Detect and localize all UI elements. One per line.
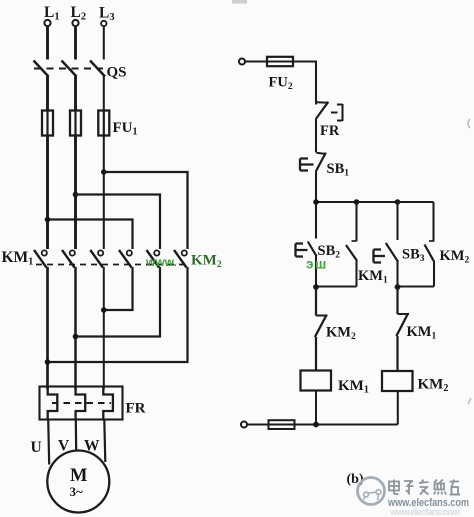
coil KM1 (301, 371, 332, 391)
FR heater element 2 (76, 387, 86, 420)
fuse FU2 lower (269, 420, 295, 429)
svg-text:V: V (58, 438, 70, 455)
svg-text:U: U (31, 439, 42, 456)
FR heater element 1 (48, 387, 58, 420)
watermark CJK text 电子发烧友 (approximated) (389, 480, 460, 495)
svg-text:www.: www. (145, 255, 177, 269)
wire FR to motor W (104, 420, 105, 463)
wire QS to FU1 phase3 (103, 76, 105, 111)
node junction phase3 (101, 307, 107, 313)
svg-text:W: W (84, 438, 100, 455)
wire pair2 bottom (398, 285, 435, 287)
wire KM1 contact1 down to FR (46, 267, 49, 390)
node junction L3 feeder (101, 169, 107, 175)
wire SB2 to pair node (315, 256, 317, 287)
contactor KM1 main contact 3 (90, 250, 103, 268)
thermal relay FR box (40, 387, 123, 420)
wire KM2 contact4 to phase3 (104, 267, 133, 310)
motor M 3-phase (47, 451, 109, 513)
wire bottom return (295, 423, 398, 425)
node junction phase1 (45, 359, 51, 365)
FR trip mechanism mark (331, 104, 343, 121)
KM main contacts dashed gang link (36, 264, 189, 266)
svg-text:(b): (b) (347, 472, 364, 487)
pushbutton SB3 (NO start rev) (374, 202, 399, 263)
wire feeder L1 to KM2 contact 4 (48, 220, 133, 250)
wire QS to FU1 phase1 (46, 76, 49, 111)
wire L2 to QS (74, 26, 77, 59)
wire coil KM2 to bottom (397, 391, 399, 425)
svg-text:FR: FR (126, 401, 146, 417)
FR NC contact (control) (316, 102, 329, 119)
wire QS to FU1 phase2 (74, 76, 77, 111)
switch QS pole 1 (34, 61, 49, 77)
fuse FU1 element 3 (98, 111, 109, 136)
contactor KM1 auxiliary NO contact (346, 202, 357, 287)
FR heaters dashed link (52, 402, 111, 404)
contactor KM1 main contact 1 (34, 250, 47, 268)
node bus-SB3 (395, 199, 401, 205)
wire L1 to QS (46, 26, 49, 59)
wire SB3 to pair node (396, 262, 398, 288)
node junction phase2 (73, 334, 79, 340)
control bus wire (316, 201, 434, 203)
node bottom KM1 coil (313, 422, 319, 428)
contactor KM1 interlock NC contact (396, 314, 409, 337)
wire terminal to FU2 (245, 60, 267, 62)
wire KM2 interlock to coil KM1 (315, 337, 317, 371)
wire FU1 to KM contact phase1 (46, 136, 49, 250)
fuse FU1 element 1 (42, 111, 53, 136)
node pair2 (395, 284, 401, 290)
contactor KM2 auxiliary NO contact (425, 202, 435, 287)
pushbutton SB2 (NO start fwd) (296, 242, 317, 257)
watermark logo elecfans (358, 478, 385, 505)
control circuit: node terminal top (239, 59, 245, 65)
contactor KM1 main contact 2 (62, 250, 75, 268)
wire KM2 contact5 to phase2 (76, 267, 161, 337)
node terminal bottom (241, 422, 247, 428)
switch QS pole 3 (90, 61, 105, 77)
wire feeder L3 to KM2 contact 6 (104, 172, 188, 249)
contactor KM2 main contact 4 (119, 250, 132, 268)
wire FU1 to KM contact phase3 (103, 136, 105, 250)
contactor KM2 main contact 5 (147, 250, 160, 268)
FR heater element 3 (103, 387, 113, 420)
switch QS pole 2 (62, 61, 77, 77)
scan artifact right edge (468, 119, 470, 128)
node L3 terminal (101, 21, 106, 26)
fuse FU1 element 2 (70, 111, 81, 136)
wire SB1 to bus (315, 172, 317, 239)
svg-text:QS: QS (107, 65, 127, 81)
fuse FU2 (267, 57, 293, 66)
wire FR contact to SB1 (315, 119, 317, 153)
wire bottom terminal to fuse (247, 423, 268, 425)
svg-text:M: M (70, 466, 87, 486)
svg-text:эш: эш (306, 257, 328, 272)
wire L3 to QS (103, 26, 105, 59)
wire KM1 contact3 down to FR (103, 267, 105, 390)
node L1 terminal (44, 20, 50, 26)
scan smudge top (232, 0, 247, 4)
svg-text:3~: 3~ (70, 484, 84, 499)
node pair1 (313, 284, 319, 290)
wire KM2 contact6 to phase1 (48, 267, 188, 362)
node junction L2 feeder (73, 192, 79, 198)
node bus-SB2 (313, 199, 319, 205)
wire FR to motor U (48, 420, 49, 465)
pushbutton SB1 (NC stop) (300, 153, 326, 172)
wire KM1 interlock to coil KM2 (396, 336, 398, 371)
node junction L1 feeder (45, 217, 51, 223)
coil KM2 (382, 371, 413, 391)
node bus-KM1aux (354, 199, 360, 205)
wire FR to motor V (75, 420, 78, 453)
wire pair1 bottom (316, 285, 357, 287)
node L2 terminal (72, 20, 78, 26)
wire pair2 to KM1 interlock (396, 287, 398, 314)
wire feeder L2 to KM2 contact 5 (76, 195, 161, 250)
QS interlock dashed link (34, 68, 103, 70)
contactor KM2 main contact 6 (174, 250, 187, 268)
wire FU1 to KM contact phase2 (74, 136, 77, 250)
contactor KM2 interlock NC contact (315, 315, 328, 337)
svg-text:FR: FR (320, 123, 340, 139)
svg-text:www.elecfans.com: www.elecfans.com (389, 507, 460, 517)
wire pair1 to KM2 interlock (315, 287, 317, 316)
wire coil KM1 to bottom (315, 391, 317, 425)
wire KM1 contact2 down to FR (74, 267, 77, 390)
wire FU2 to FR contact (293, 62, 316, 105)
